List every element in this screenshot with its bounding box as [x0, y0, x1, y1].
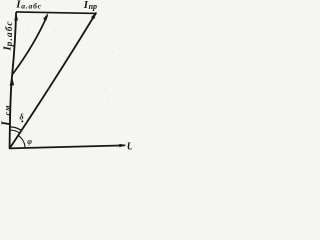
- vector I (total current): [10, 13, 97, 149]
- arrowhead of Iсм: [10, 76, 15, 86]
- arrowhead of Iр.абс (top of vertical axis): [14, 13, 18, 21]
- svg-text:см: см: [3, 105, 12, 115]
- arrowhead of vector I: [91, 12, 97, 20]
- wire: top horizontal construction line (Iа.абс + Iпр): [16, 12, 96, 14]
- U axis arrowhead: [119, 144, 126, 147]
- wire: vertical current axis (Iсм + Iр.абс): [10, 12, 17, 148]
- angle phi arc: [18, 135, 25, 148]
- svg-text:пр: пр: [89, 2, 97, 11]
- label Iр.абс (rotated): [2, 20, 15, 51]
- svg-text:р.абс: р.абс: [4, 20, 15, 47]
- svg-text:а.абс: а.абс: [21, 1, 42, 10]
- arrowhead of Iабс: [43, 13, 48, 21]
- scan noise speckles: [20, 8, 126, 144]
- svg-text:δ: δ: [20, 113, 24, 122]
- angle delta arc: [10, 127, 21, 130]
- node O (origin of phasor diagram): [9, 148, 11, 150]
- svg-text:U: U: [127, 141, 132, 152]
- wire: U axis (horizontal): [10, 145, 125, 148]
- delta arc arrow dot: [21, 120, 23, 122]
- vector Iабс (from tip of Iсм to top line): [12, 16, 47, 75]
- label Iсм (rotated): [0, 105, 13, 127]
- svg-text:φ: φ: [27, 137, 32, 146]
- angle delta inner arc: [10, 130, 19, 133]
